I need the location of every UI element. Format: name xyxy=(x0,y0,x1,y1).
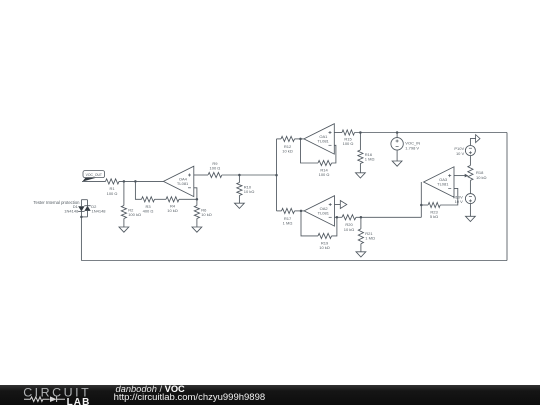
svg-text:TL081: TL081 xyxy=(437,182,449,187)
resistor R1 xyxy=(106,179,120,184)
svg-text:LAB: LAB xyxy=(67,396,91,405)
wire xyxy=(277,138,282,140)
wire xyxy=(396,133,398,138)
wire xyxy=(359,133,361,151)
svg-text:1N4148: 1N4148 xyxy=(92,209,107,214)
svg-text:10 V: 10 V xyxy=(455,199,464,204)
resistor R21 xyxy=(358,229,363,244)
wire xyxy=(301,139,319,163)
CircuitLab logo xyxy=(0,385,110,405)
svg-text:Tester Internal protection: Tester Internal protection xyxy=(33,200,80,205)
svg-text:1 MΩ: 1 MΩ xyxy=(365,236,375,241)
wire xyxy=(80,217,82,261)
svg-text:10 V: 10 V xyxy=(456,151,465,156)
ground xyxy=(235,203,245,208)
svg-text:5 kΩ: 5 kΩ xyxy=(430,214,438,219)
svg-text:10 kΩ: 10 kΩ xyxy=(344,227,355,232)
wire xyxy=(295,138,304,140)
node junction xyxy=(336,216,339,219)
wire xyxy=(179,198,197,200)
svg-text:VOC_OUT: VOC_OUT xyxy=(86,173,102,177)
wire xyxy=(469,156,471,166)
op-amp OA3 TL081 xyxy=(424,167,454,197)
wire xyxy=(194,188,197,200)
resistor R3 xyxy=(142,197,155,202)
svg-text:100 Ω: 100 Ω xyxy=(319,172,330,177)
node junction xyxy=(196,198,199,201)
wire xyxy=(440,188,458,205)
wire xyxy=(301,211,318,236)
wire xyxy=(238,175,240,183)
wire xyxy=(81,216,87,218)
flag node P10V xyxy=(470,139,475,146)
wire xyxy=(334,132,342,134)
resistor R17 xyxy=(282,208,295,213)
wire xyxy=(295,210,305,212)
node junction xyxy=(238,174,241,177)
wire xyxy=(277,210,282,212)
voltage source N10V xyxy=(465,194,475,204)
wire xyxy=(454,175,466,177)
wire xyxy=(155,198,167,200)
op-amp OA2 TL081 xyxy=(304,196,334,226)
wire xyxy=(196,199,198,205)
svg-text:TL081: TL081 xyxy=(177,181,189,186)
resistor R10 xyxy=(237,183,242,196)
op-amp OA4 TL081 xyxy=(163,166,193,196)
wire xyxy=(332,145,336,163)
resistor R6 xyxy=(194,206,199,219)
resistor R20 xyxy=(342,215,356,220)
wire xyxy=(276,139,278,211)
wire xyxy=(82,180,106,182)
resistor R12 xyxy=(281,136,295,141)
svg-text:1.798 V: 1.798 V xyxy=(405,145,419,150)
svg-text:10 kΩ: 10 kΩ xyxy=(476,175,487,180)
node junction xyxy=(80,216,83,219)
svg-text:10 kΩ: 10 kΩ xyxy=(319,245,330,250)
node junction xyxy=(134,180,137,183)
wire xyxy=(119,180,163,182)
potentiometer R18 xyxy=(468,165,473,180)
wire xyxy=(135,181,141,199)
svg-text:1 MΩ: 1 MΩ xyxy=(365,156,375,161)
svg-text:400 Ω: 400 Ω xyxy=(143,208,154,213)
wire xyxy=(123,181,125,205)
svg-text:100 Ω: 100 Ω xyxy=(343,141,354,146)
footer bar xyxy=(0,385,540,405)
resistor R4 xyxy=(166,197,179,202)
wiper arrow xyxy=(465,174,469,178)
ground xyxy=(356,252,366,257)
resistor R14 xyxy=(318,160,332,165)
svg-text:100 kΩ: 100 kΩ xyxy=(128,212,141,217)
wire xyxy=(222,174,277,176)
wire xyxy=(359,164,361,173)
diode D1 1N4148 xyxy=(80,200,82,207)
wire xyxy=(332,217,337,236)
ground xyxy=(466,216,476,221)
svg-text:1 MΩ: 1 MΩ xyxy=(283,220,293,225)
ground xyxy=(356,173,366,178)
attribution text xyxy=(116,384,185,394)
svg-text:TL081: TL081 xyxy=(317,139,329,144)
wire xyxy=(469,204,471,217)
voltage source P10V xyxy=(465,146,475,156)
node junction xyxy=(299,138,302,141)
flag VOC_OUT xyxy=(83,171,105,178)
diode D2 1N4148 xyxy=(87,200,89,206)
op-amp OA1 TL081 xyxy=(304,124,334,154)
wire xyxy=(360,244,362,252)
wire xyxy=(396,150,398,161)
wire xyxy=(469,180,471,193)
resistor R16 xyxy=(358,150,363,164)
voltage source VOC_IN xyxy=(391,138,403,150)
wire xyxy=(196,219,198,228)
wire xyxy=(355,132,508,134)
svg-text:100 Ω: 100 Ω xyxy=(210,165,221,170)
resistor R23 xyxy=(428,202,440,207)
wire xyxy=(420,182,422,217)
ground xyxy=(392,161,402,166)
resistor R2 xyxy=(121,206,126,219)
node junction xyxy=(360,216,363,219)
svg-text:10 kΩ: 10 kΩ xyxy=(167,208,178,213)
node junction xyxy=(396,131,399,134)
resistor R15 xyxy=(342,130,355,135)
node junction xyxy=(300,210,303,213)
wire xyxy=(360,217,362,229)
wire xyxy=(238,196,240,204)
node junction xyxy=(123,180,126,183)
wire xyxy=(123,219,125,228)
node junction xyxy=(275,174,278,177)
ground xyxy=(192,227,202,232)
wire xyxy=(335,204,341,206)
wire xyxy=(421,204,428,206)
wire xyxy=(335,216,343,218)
ground xyxy=(119,227,129,232)
svg-text:10 kΩ: 10 kΩ xyxy=(282,148,293,153)
svg-text:1N4148: 1N4148 xyxy=(64,208,79,213)
node junction xyxy=(420,204,423,207)
wire xyxy=(356,216,421,218)
svg-text:10 kΩ: 10 kΩ xyxy=(244,189,255,194)
wire xyxy=(194,174,208,176)
svg-text:TL081: TL081 xyxy=(318,211,330,216)
resistor R9 xyxy=(208,172,222,177)
wire xyxy=(506,133,508,261)
resistor R19 xyxy=(318,233,332,238)
svg-text:100 Ω: 100 Ω xyxy=(107,191,118,196)
svg-text:10 kΩ: 10 kΩ xyxy=(201,212,212,217)
node junction xyxy=(359,131,362,134)
wire xyxy=(81,260,507,262)
flag node xyxy=(340,201,347,209)
wire xyxy=(81,199,87,201)
